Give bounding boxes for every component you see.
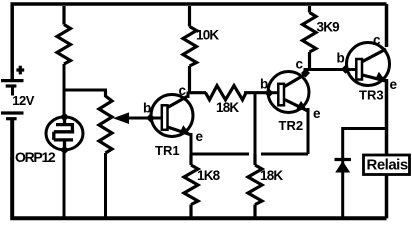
svg-text:c: c (373, 33, 381, 48)
svg-text:3K9: 3K9 (317, 20, 340, 35)
wire bottom frame (12, 120, 386, 219)
wire top frame (12, 4, 386, 80)
potentiometer P1 (99, 92, 112, 154)
wire TR2 emitter down and left to common rail (307, 108, 310, 154)
svg-text:b: b (337, 51, 345, 66)
resistor R1 (left, unlabelled) (57, 6, 71, 64)
node TR1 base (146, 114, 155, 123)
wire ORP12 bottom to frame (63, 150, 66, 218)
wire diode branch top (343, 127, 387, 130)
svg-text:b: b (260, 77, 268, 92)
potentiometer wiper arrow (113, 112, 129, 124)
resistor R2 10K (183, 6, 197, 93)
node ORP12 top (60, 113, 69, 122)
diode D1 (335, 160, 352, 173)
svg-text:1K8: 1K8 (197, 168, 221, 183)
svg-text:18K: 18K (216, 100, 239, 115)
svg-text:b: b (143, 101, 151, 116)
wire relay bottom to frame (385, 174, 389, 218)
svg-text:e: e (313, 106, 321, 121)
wire diode vertical (341, 127, 344, 218)
wire TR2 collector to TR3 base (304, 68, 357, 71)
svg-text:e: e (390, 77, 398, 92)
photoresistor ORP12 (46, 117, 83, 150)
wire TR2 base to 18K vertical (254, 93, 257, 154)
wire TR3 collector to top frame (385, 4, 389, 47)
battery B1 12V (1, 66, 24, 119)
relay box Relais (364, 155, 410, 175)
transistor TR2 (268, 72, 309, 113)
svg-text:TR2: TR2 (279, 118, 304, 133)
node TR2 base (265, 89, 274, 98)
wire R1 bottom to junction (63, 64, 66, 90)
svg-text:c: c (296, 56, 304, 71)
svg-text:TR1: TR1 (155, 143, 180, 158)
wire wiper to TR1 base (126, 117, 161, 120)
svg-text:12V: 12V (12, 93, 34, 108)
wire junction to potentiometer top (63, 90, 106, 92)
svg-text:TR3: TR3 (359, 88, 384, 103)
svg-text:10K: 10K (196, 28, 219, 43)
wire TR1 collector (187, 92, 190, 99)
svg-text:Relais: Relais (367, 157, 408, 174)
resistor R4 1K8 (184, 154, 198, 218)
wire TR3 emitter down to relay (385, 79, 389, 155)
svg-text:18K: 18K (260, 168, 283, 183)
resistor R3 18K (horizontal) (188, 86, 268, 100)
transistor TR1 (151, 95, 193, 137)
node TR2 collector (301, 69, 310, 78)
node TR3 base (341, 65, 350, 74)
resistor R5 18K (vertical) (248, 154, 262, 218)
svg-text:e: e (196, 129, 204, 144)
wire potentiometer bottom to frame (104, 153, 107, 218)
svg-text:c: c (179, 83, 187, 98)
wire TR2 collector (304, 70, 307, 77)
wire ORP12 top (63, 90, 66, 117)
node ORP12 bottom (60, 146, 69, 155)
resistor R6 3K9 (303, 6, 317, 70)
svg-text:ORP12: ORP12 (15, 149, 56, 165)
transistor TR3 (347, 43, 390, 86)
wire emitter rail (191, 133, 308, 154)
